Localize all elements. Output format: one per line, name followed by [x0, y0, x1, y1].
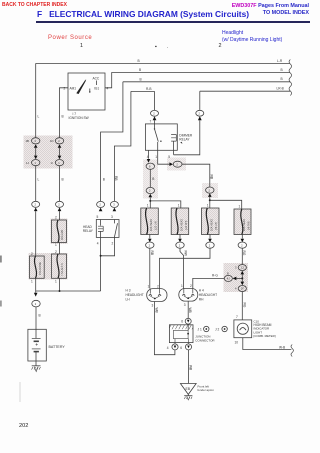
J cluster side arrow [233, 277, 237, 281]
page number [19, 423, 28, 429]
svg-text:2: 2 [190, 284, 192, 288]
header right line2 [263, 10, 309, 16]
dimmer pin1 wire to sideways connector [158, 150, 170, 164]
svg-text:LR-B: LR-B [277, 87, 284, 91]
svg-text:1: 1 [207, 204, 209, 208]
connector circle A row204 [32, 201, 40, 207]
wire fuse2 to bulb RH pin1 [180, 248, 184, 288]
header link [2, 2, 67, 8]
shaded connector area mid-right [202, 183, 218, 198]
svg-text:RH: RH [199, 298, 204, 302]
svg-text:H 4: H 4 [199, 289, 204, 293]
J cluster side circle [224, 275, 232, 281]
J cluster top circle [238, 265, 246, 271]
svg-text:2: 2 [209, 243, 211, 247]
J2 circle [222, 326, 227, 331]
fuse1 bottom connector [149, 235, 151, 239]
svg-text:2: 2 [64, 86, 66, 90]
svg-text:2: 2 [35, 302, 37, 306]
C10 indicator box [234, 320, 252, 338]
svg-text:2: 2 [55, 250, 57, 254]
battery ground [35, 361, 37, 366]
junction dot fuse1/2 [149, 200, 151, 202]
wire R-B drop to dimmer connector [154, 91, 156, 110]
svg-text:LH: LH [126, 298, 131, 302]
svg-text:3: 3 [113, 203, 115, 207]
svg-text:1: 1 [55, 243, 57, 247]
shaded fuse A/B2 area [29, 253, 68, 280]
C10 lamp [237, 323, 248, 334]
wire B below fuse [59, 278, 61, 291]
shaded J-cluster area [224, 263, 249, 292]
scan artifact line [19, 382, 21, 402]
wire to battery [35, 307, 37, 329]
dimmer pin4 connector [148, 150, 150, 159]
svg-text:(LO RH): (LO RH) [185, 221, 188, 230]
svg-text:B: B [140, 77, 142, 81]
head relay coil [100, 220, 102, 226]
wire R-B dimmer feed segment [131, 90, 155, 92]
headlight RH bulb [179, 288, 198, 301]
svg-text:B: B [281, 68, 283, 72]
svg-text:HEADLIGHT: HEADLIGHT [199, 293, 217, 297]
svg-text:10A HEAD: 10A HEAD [243, 219, 246, 231]
sideways connector circle [173, 161, 182, 167]
dimmer coil feed wire [174, 120, 200, 155]
ignition IG1 contact [89, 89, 91, 92]
svg-text:B: B [281, 77, 283, 81]
svg-text:W-B: W-B [279, 345, 285, 349]
fuse HEAD LO LH [141, 208, 159, 235]
head relay switch [114, 220, 116, 224]
J1 circle [204, 326, 209, 331]
wire bus2 from IG1 [105, 73, 290, 88]
svg-text:J 1: J 1 [198, 328, 202, 332]
junction dot B merge [59, 290, 61, 292]
wire to ground EB [188, 350, 190, 383]
title underline [36, 21, 310, 23]
wire bus4 LR-B [200, 90, 290, 92]
shaded fuse B1 area [51, 219, 68, 245]
fuse 40A AM1 [52, 220, 67, 243]
wire to fuse1 [149, 197, 151, 208]
svg-text:2: 2 [112, 241, 114, 245]
svg-text:4: 4 [97, 241, 99, 245]
J cluster arrow down [241, 282, 245, 286]
ignition switch box I7 [68, 73, 105, 110]
svg-text:R-G: R-G [212, 274, 218, 278]
svg-text:fender apron: fender apron [198, 388, 215, 392]
connector circle fuse3 feed [206, 187, 214, 193]
wire bulb LH down [154, 302, 175, 355]
svg-text:BATTERY: BATTERY [49, 345, 66, 349]
svg-text:6: 6 [180, 346, 182, 350]
fuse2 bottom connector [179, 235, 181, 239]
wire A below fuse [35, 278, 37, 291]
ground triangle EB [180, 384, 196, 395]
svg-text:10A HEAD: 10A HEAD [180, 219, 183, 231]
title F [37, 9, 249, 19]
svg-text:RELAY: RELAY [179, 138, 190, 142]
svg-text:5: 5 [168, 155, 170, 159]
svg-text:W-B: W-B [188, 365, 192, 370]
svg-text:B: B [39, 314, 41, 318]
Power Source heading [48, 35, 92, 41]
scan artifact smudge 1 [0, 256, 2, 263]
J cluster arrow up [241, 271, 245, 275]
svg-text:L: L [38, 115, 40, 119]
fuse 7.5A ALT-S [52, 254, 67, 278]
Headlight subheading [222, 37, 282, 43]
shaded junction block upper-left [24, 136, 73, 169]
svg-text:4: 4 [107, 86, 109, 90]
svg-text:7: 7 [236, 315, 238, 319]
wire AM1 pin2 to column B [60, 88, 69, 138]
connector circle C row204 [97, 201, 105, 207]
svg-text:6: 6 [181, 320, 183, 324]
svg-text:R-B: R-B [114, 176, 118, 180]
svg-text:2: 2 [149, 243, 151, 247]
svg-text:R-B: R-B [146, 87, 152, 91]
svg-text:(HI LH): (HI LH) [215, 222, 218, 230]
svg-text:R-W: R-W [184, 251, 188, 256]
svg-text:10A HEAD: 10A HEAD [150, 219, 153, 231]
wire column B mid [59, 166, 61, 202]
wire bus3 [123, 81, 290, 83]
svg-text:1: 1 [147, 204, 149, 208]
svg-text:B: B [138, 59, 140, 63]
ignition switch lever [76, 79, 86, 94]
J cluster bottom circle [238, 286, 246, 292]
branch to fuse2 [150, 201, 181, 208]
fuse3 bottom connector [209, 235, 211, 239]
svg-text:7.5A ALT-S: 7.5A ALT-S [60, 263, 64, 276]
head relay pin2 wire [101, 237, 115, 255]
svg-text:2: 2 [31, 252, 33, 256]
svg-text:R-B: R-B [209, 175, 213, 179]
svg-text:B: B [62, 178, 64, 182]
ignition ACC contact [96, 81, 98, 86]
svg-text:7: 7 [150, 120, 152, 124]
wire cluster to C10 [241, 292, 243, 320]
svg-text:1F: 1F [241, 287, 244, 291]
svg-text:1I: 1I [51, 161, 54, 165]
section marker 1 [80, 43, 83, 49]
wire B between fuses [59, 243, 61, 255]
junction connector box [169, 325, 193, 343]
svg-text:H 3: H 3 [126, 289, 131, 293]
ground symbol below [187, 394, 189, 395]
wire B to fuse AM1 [59, 211, 61, 220]
head relay box [96, 220, 119, 238]
wire between pair A [35, 148, 37, 156]
svg-text:B: B [227, 271, 229, 275]
section bullet [155, 44, 157, 50]
svg-text:2: 2 [241, 243, 243, 247]
svg-text:IGNITION SW: IGNITION SW [69, 116, 89, 120]
wire bus1 B [36, 62, 290, 64]
svg-text:3: 3 [184, 303, 186, 307]
svg-text:4: 4 [167, 346, 169, 350]
junction connector inner [173, 330, 188, 338]
svg-text:2: 2 [157, 285, 159, 289]
wire C10 to ground squiggle [243, 338, 291, 350]
wire A to fuse DOME [35, 211, 37, 256]
dimmer switch [154, 124, 156, 128]
branch to fuse4 [210, 200, 242, 209]
svg-text:15A DOME: 15A DOME [38, 262, 42, 275]
svg-text:[COMB. METER]: [COMB. METER] [254, 334, 276, 338]
battery feed arrow [35, 291, 37, 293]
svg-text:B: B [62, 115, 64, 119]
dimmer relay box [145, 124, 177, 150]
svg-text:2: 2 [55, 216, 57, 220]
battery box [28, 329, 46, 361]
svg-text:(HI RH): (HI RH) [248, 221, 251, 230]
svg-text:10A HEAD: 10A HEAD [211, 219, 214, 231]
J cluster center wire [241, 274, 243, 281]
shaded connector area mid-left [143, 160, 158, 199]
fuse HEAD HI RH [234, 209, 251, 235]
fuse 15A DOME [30, 256, 45, 278]
svg-text:R-B: R-B [150, 251, 154, 255]
svg-text:HEADLIGHT: HEADLIGHT [126, 293, 144, 297]
battery merge wire [36, 290, 101, 292]
svg-text:1: 1 [31, 280, 33, 284]
squiggle right low [291, 345, 293, 357]
svg-text:1: 1 [148, 285, 150, 289]
svg-text:2: 2 [35, 203, 37, 207]
connector circle fuse1 feed [146, 187, 154, 193]
svg-text:1: 1 [155, 155, 157, 159]
svg-text:2: 2 [179, 243, 181, 247]
wire to fuse3 [209, 197, 211, 208]
dimmer label arrow [180, 142, 182, 144]
junction dot fuse3/4 [209, 199, 211, 201]
svg-text:EB: EB [186, 387, 191, 391]
svg-text:5: 5 [97, 215, 99, 219]
scan artifact smudge 2 [0, 301, 2, 307]
junction connector hatch [169, 325, 193, 330]
svg-text:L: L [38, 178, 40, 182]
wire fuse4 to J cluster [241, 248, 243, 264]
svg-text:1: 1 [239, 205, 241, 209]
fuse HEAD HI LH [202, 208, 220, 235]
wire bulb RH pin2 to J cluster [193, 278, 224, 288]
svg-text:AM1: AM1 [70, 86, 77, 90]
svg-text:1D: 1D [50, 139, 54, 143]
section dot [167, 44, 168, 50]
svg-text:CONNECTOR: CONNECTOR [195, 339, 215, 343]
wire column A mid [35, 166, 37, 202]
svg-text:ACC: ACC [93, 77, 100, 81]
wire fuse3 to bulb LH pin2 [160, 248, 211, 288]
fuse HEAD LO RH [171, 208, 189, 235]
svg-text:1: 1 [181, 284, 183, 288]
Headlight heading [222, 30, 243, 36]
sideways connector arrow [169, 162, 173, 166]
svg-text:W-B: W-B [154, 308, 158, 313]
svg-text:4: 4 [147, 155, 149, 159]
svg-text:3: 3 [152, 304, 154, 308]
wire fuse1 to bulb LH pin1 [149, 248, 151, 288]
head relay pin4 wire to merge [100, 237, 102, 291]
svg-text:W-B: W-B [188, 308, 192, 313]
header right line1 [232, 3, 309, 9]
wire to right drop [182, 164, 210, 187]
svg-text:R-G: R-G [242, 251, 246, 256]
wire between pair B [59, 148, 61, 156]
section marker 2 [219, 43, 222, 49]
coil connector [196, 110, 204, 116]
wire pin4 down [149, 169, 151, 187]
page continuation squiggle [289, 60, 292, 96]
svg-text:1: 1 [178, 204, 180, 208]
svg-text:2: 2 [99, 203, 101, 207]
svg-text:2: 2 [199, 111, 201, 115]
connector pair column B [55, 138, 63, 144]
connector circle D row204 [110, 201, 118, 207]
svg-text:RELAY: RELAY [83, 229, 94, 233]
fuse4 bottom connector [241, 235, 243, 239]
svg-text:B: B [152, 177, 154, 181]
junction connector bottom pins [175, 339, 189, 344]
svg-text:IG1: IG1 [94, 86, 99, 90]
svg-text:2: 2 [58, 203, 60, 207]
battery plates [35, 329, 37, 338]
wire bulb RH down [187, 301, 189, 318]
junction dot head relay [100, 255, 102, 257]
svg-text:1: 1 [55, 280, 57, 284]
connector pair column A [32, 138, 40, 144]
svg-text:J 2: J 2 [215, 328, 219, 332]
connector circle B row204 [56, 201, 64, 207]
wire bus3 left drop to head relay coil [101, 82, 123, 202]
svg-text:(LO LH): (LO LH) [155, 221, 158, 230]
dimmer coil [171, 135, 176, 142]
svg-text:2: 2 [153, 112, 155, 116]
shaded connector area mid [167, 158, 186, 171]
wire bus4 drop to coil connector [199, 91, 201, 110]
dimmer connector circle [151, 110, 159, 116]
svg-text:L-R: L-R [277, 59, 283, 63]
svg-text:B: B [139, 68, 141, 72]
wire column A top [35, 63, 37, 137]
svg-text:10: 10 [235, 341, 239, 345]
battery connector circle [32, 300, 40, 307]
headlight LH bulb [147, 289, 167, 302]
svg-text:40A AM1: 40A AM1 [60, 229, 64, 240]
svg-text:R-G: R-G [242, 303, 246, 308]
svg-text:B: B [103, 178, 105, 182]
junction connector top pin [185, 318, 191, 324]
wire R-B left drop to head relay switch [114, 91, 130, 201]
svg-text:3: 3 [111, 215, 113, 219]
svg-text:1B: 1B [26, 139, 30, 143]
